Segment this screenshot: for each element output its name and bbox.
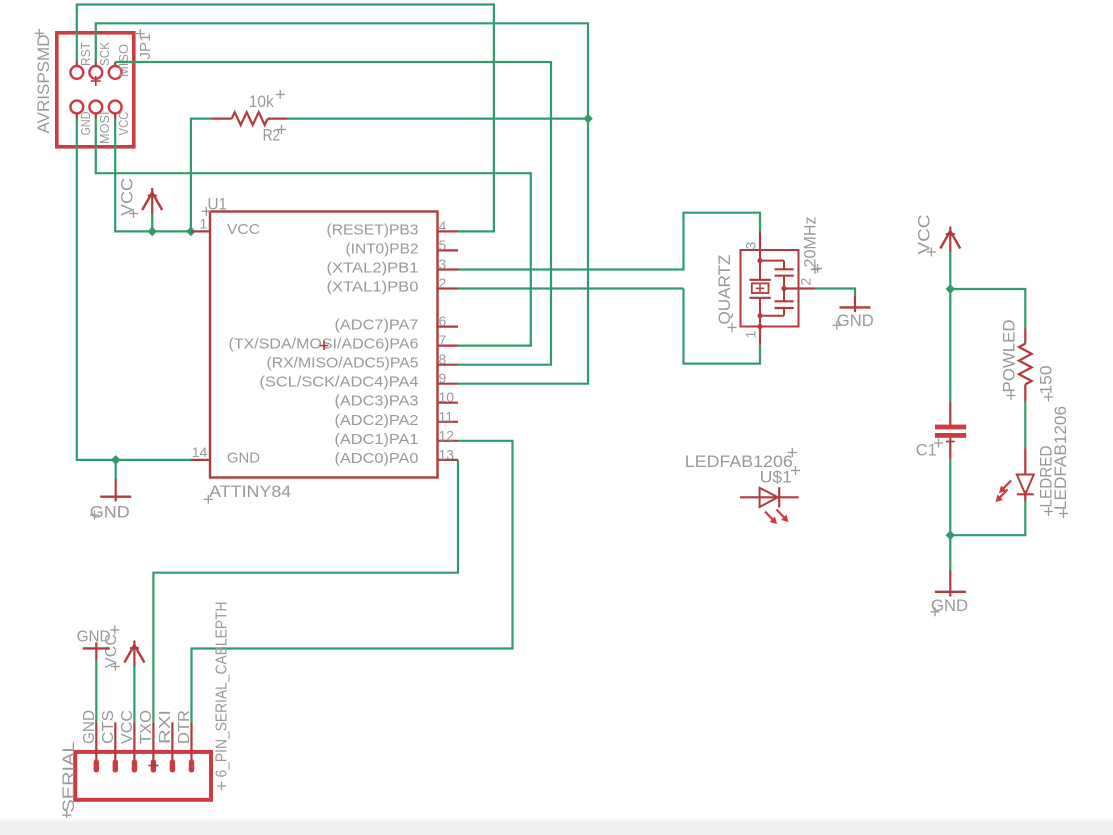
svg-text:MOSI: MOSI <box>98 112 112 145</box>
svg-text:CTS: CTS <box>100 710 117 744</box>
svg-text:(ADC1)PA1: (ADC1)PA1 <box>335 432 419 448</box>
svg-text:150: 150 <box>1037 366 1056 395</box>
svg-text:C1: C1 <box>916 441 937 460</box>
svg-text:12: 12 <box>439 427 455 443</box>
svg-text:7: 7 <box>439 332 447 348</box>
svg-text:RST: RST <box>79 42 93 66</box>
svg-text:LEDFAB1206: LEDFAB1206 <box>1051 406 1070 510</box>
svg-text:VCC: VCC <box>914 215 933 255</box>
svg-text:8: 8 <box>439 351 447 367</box>
svg-text:GND: GND <box>81 710 98 744</box>
svg-text:(RESET)PB3: (RESET)PB3 <box>327 222 419 238</box>
svg-text:6: 6 <box>439 313 447 329</box>
svg-text:4: 4 <box>439 218 447 234</box>
svg-text:10: 10 <box>439 389 455 405</box>
svg-text:VCC: VCC <box>227 221 260 238</box>
svg-text:U1: U1 <box>208 195 228 214</box>
svg-text:AVRISPSMD: AVRISPSMD <box>34 35 53 134</box>
svg-text:RXI: RXI <box>157 710 174 744</box>
svg-text:13: 13 <box>439 446 455 462</box>
svg-text:POWLED: POWLED <box>1000 320 1019 393</box>
svg-text:1: 1 <box>200 216 208 232</box>
svg-text:GND: GND <box>90 503 130 522</box>
svg-text:(ADC3)PA3: (ADC3)PA3 <box>335 394 419 410</box>
svg-text:6_PIN_SERIAL_CABLEPTH: 6_PIN_SERIAL_CABLEPTH <box>213 602 230 778</box>
svg-text:3: 3 <box>743 242 759 250</box>
svg-text:GND: GND <box>79 112 93 136</box>
svg-text:(SCL/SCK/ADC4)PA4: (SCL/SCK/ADC4)PA4 <box>260 375 419 391</box>
svg-text:VCC: VCC <box>117 112 131 136</box>
svg-text:R2: R2 <box>263 126 281 145</box>
svg-text:TXO: TXO <box>138 710 155 744</box>
svg-text:2: 2 <box>798 278 814 286</box>
svg-text:(RX/MISO/ADC5)PA5: (RX/MISO/ADC5)PA5 <box>267 356 419 372</box>
svg-text:11: 11 <box>439 408 454 424</box>
svg-text:(INT0)PB2: (INT0)PB2 <box>346 241 419 257</box>
svg-text:(XTAL1)PB0: (XTAL1)PB0 <box>327 280 419 296</box>
svg-text:1: 1 <box>743 331 759 339</box>
svg-text:(ADC7)PA7: (ADC7)PA7 <box>335 318 419 334</box>
svg-text:2: 2 <box>439 275 447 291</box>
svg-text:SCK: SCK <box>98 41 112 66</box>
svg-text:20MHz: 20MHz <box>801 217 820 268</box>
svg-text:SERIAL: SERIAL <box>59 742 78 813</box>
svg-text:VCC: VCC <box>119 710 136 744</box>
svg-text:(ADC2)PA2: (ADC2)PA2 <box>335 413 419 429</box>
svg-text:GND: GND <box>837 311 874 330</box>
svg-text:9: 9 <box>439 370 447 386</box>
svg-text:ATTINY84: ATTINY84 <box>209 482 291 501</box>
svg-text:U$1: U$1 <box>760 468 792 487</box>
svg-text:(XTAL2)PB1: (XTAL2)PB1 <box>327 261 419 277</box>
svg-text:(ADC0)PA0: (ADC0)PA0 <box>335 451 419 467</box>
svg-text:3: 3 <box>439 256 447 272</box>
svg-text:DTR: DTR <box>176 710 193 744</box>
svg-text:MISO: MISO <box>117 44 131 77</box>
svg-text:QUARTZ: QUARTZ <box>715 255 734 325</box>
svg-text:10k: 10k <box>249 92 274 111</box>
svg-text:GND: GND <box>227 449 260 466</box>
svg-text:JP1: JP1 <box>137 34 154 60</box>
svg-text:14: 14 <box>192 444 208 460</box>
svg-text:GND: GND <box>77 629 111 646</box>
svg-text:5: 5 <box>439 237 447 253</box>
